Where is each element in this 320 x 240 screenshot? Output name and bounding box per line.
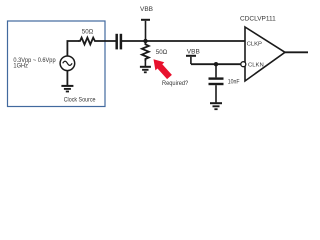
svg-text:50Ω: 50Ω [82, 28, 94, 35]
buffer U1 triangle [245, 27, 285, 81]
node junction 1 [143, 39, 147, 43]
VBB supply 2 [186, 48, 200, 64]
red annotation arrow [154, 59, 172, 79]
output wire [285, 51, 308, 53]
ground G2 (under R2) [140, 67, 151, 73]
clock source box [8, 21, 106, 107]
svg-text:Clock Source: Clock Source [64, 97, 96, 104]
source V1 (sine) [60, 56, 75, 71]
svg-text:1GHz: 1GHz [13, 62, 28, 69]
svg-text:VBB: VBB [140, 6, 153, 13]
svg-text:CLKN: CLKN [248, 63, 264, 69]
inversion bubble on CLKN [241, 62, 246, 67]
capacitor C2 10nF [209, 79, 224, 84]
node junction 2 [214, 62, 218, 66]
svg-text:VBB: VBB [187, 48, 200, 55]
VBB supply 1 [140, 6, 153, 41]
wire VBB2 to bubble (CLKN wire) [191, 63, 241, 65]
svg-text:CLKP: CLKP [247, 41, 262, 47]
ground G3 (under C2) [210, 103, 222, 109]
ground G1 (under source) [61, 86, 73, 92]
wire R1 to C1 [96, 40, 116, 42]
wire C2 to ground [215, 85, 217, 102]
wire junction 2 down to C2 [215, 64, 217, 77]
wire C1 to triangle (main CLKP wire) [122, 40, 245, 42]
capacitor C1 series [117, 34, 121, 50]
wire R2 to ground [144, 61, 146, 66]
svg-text:Required?: Required? [162, 80, 189, 87]
wire source top to corner [67, 41, 79, 56]
svg-text:10nF: 10nF [228, 79, 240, 85]
resistor R2 50 ohm shunt [142, 41, 149, 61]
resistor R1 50 ohm series [79, 38, 97, 45]
wire source bottom to ground [66, 71, 68, 86]
svg-text:CDCLVP111: CDCLVP111 [240, 16, 276, 23]
svg-text:50Ω: 50Ω [156, 49, 168, 56]
